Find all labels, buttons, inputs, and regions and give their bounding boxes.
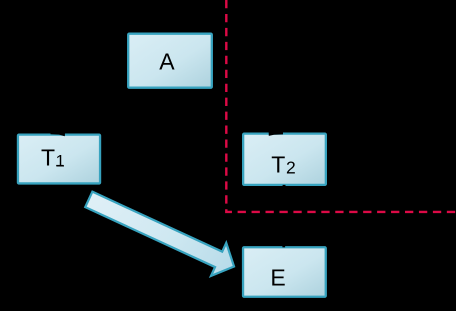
svg-text:1: 1	[56, 152, 65, 170]
box E	[243, 247, 326, 297]
svg-text:A: A	[159, 48, 175, 74]
box T2	[243, 134, 326, 185]
svg-text:T: T	[271, 152, 285, 178]
dashed red boundary line	[226, 0, 456, 212]
black arrowhead mark crossing E top border (arrow from T2, invisible on black)	[282, 246, 285, 247]
black arrowhead mark crossing T2 top border (arrow from A, invisible on black)	[269, 128, 284, 136]
black line mark crossing T2 bottom border (arrow to E, invisible on black)	[283, 185, 286, 187]
svg-text:2: 2	[286, 157, 296, 177]
big block arrow T1 -> E	[81, 183, 242, 283]
svg-text:E: E	[270, 265, 285, 291]
box A	[128, 34, 212, 88]
box T1	[18, 135, 100, 184]
black arrowhead mark crossing T1 top border (arrow from A, invisible on black)	[51, 128, 66, 136]
svg-text:T: T	[41, 144, 55, 170]
